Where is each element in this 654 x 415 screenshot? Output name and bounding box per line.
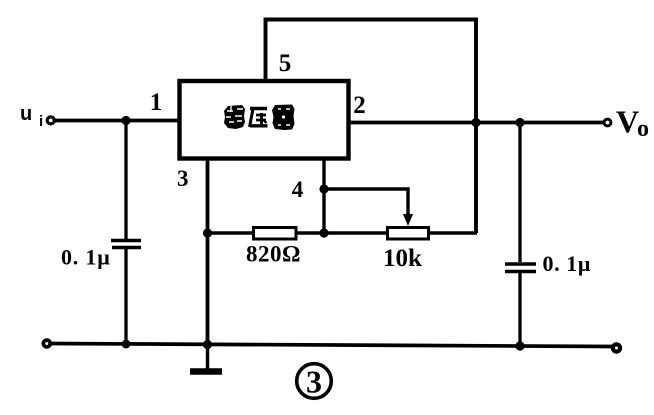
label ui: [20, 103, 43, 130]
node pin3/row junction: [203, 228, 212, 237]
wire row right (RP to feedback vertical): [429, 231, 477, 234]
svg-text:0. 1μ: 0. 1μ: [543, 251, 591, 276]
terminal Vo: [604, 119, 611, 126]
wire row left (pin3 to R1): [208, 231, 254, 234]
node pin4/wiper junction: [319, 184, 328, 193]
capacitor C1 0.1u: [111, 241, 141, 248]
svg-text:5: 5: [279, 50, 292, 77]
ground symbol: [190, 345, 222, 372]
svg-text:2: 2: [353, 92, 366, 119]
wire pin5 feedback loop (box top to right vertical): [266, 20, 477, 234]
wire row middle (R1 to RP): [297, 231, 387, 234]
wiper arrowhead: [403, 214, 413, 226]
terminal ground left: [43, 340, 50, 347]
node pin3/rail junction: [203, 340, 212, 349]
node C2/rail junction: [515, 341, 524, 350]
wire pin3 (box bottom to ground rail): [206, 158, 210, 345]
wire C2 upper lead: [518, 123, 521, 263]
wire C1 upper lead: [124, 121, 127, 240]
svg-text:10k: 10k: [383, 245, 422, 272]
node input/C1 junction: [121, 116, 130, 125]
wire pin4 to wiper arrow: [324, 189, 408, 216]
char 器 (heavy ink blob with pinhole): [272, 105, 295, 131]
svg-text:o: o: [637, 116, 649, 142]
wire C1 lower lead: [124, 249, 127, 345]
node output/C2 junction: [515, 118, 524, 127]
svg-text:i: i: [39, 113, 43, 130]
terminal ui: [47, 117, 54, 124]
wire input (ui to pin1): [55, 119, 180, 123]
ground rail wire: [50, 344, 613, 347]
label Vo: [616, 104, 649, 143]
svg-text:1: 1: [150, 89, 163, 116]
node pin4/row junction: [319, 228, 328, 237]
svg-text:3: 3: [177, 166, 189, 191]
svg-text:3: 3: [306, 364, 322, 400]
svg-text:820Ω: 820Ω: [246, 242, 301, 267]
label 稳压器 (drawn glyphs): [224, 105, 295, 131]
node C1/rail junction: [122, 340, 131, 349]
terminal ground right: [613, 344, 620, 351]
regulator box U1 (稳压器): [180, 81, 349, 159]
capacitor C2 0.1u: [505, 264, 536, 272]
figure number 3 (circled): [297, 364, 332, 400]
resistor R1 820ohm: [254, 228, 297, 240]
wire pin4 (box bottom to resistor row): [322, 158, 325, 233]
svg-text:u: u: [20, 103, 32, 125]
svg-text:V: V: [616, 104, 639, 140]
potentiometer RP 10k: [388, 228, 429, 240]
node output/feedback junction: [471, 118, 480, 127]
svg-text:4: 4: [292, 177, 304, 202]
char 压: [250, 109, 268, 128]
wire C2 lower lead: [518, 273, 521, 346]
wire output (pin2 to Vo): [348, 121, 604, 125]
svg-text:0. 1μ: 0. 1μ: [61, 245, 110, 270]
char 稳 (heavy ink blob): [224, 105, 245, 129]
